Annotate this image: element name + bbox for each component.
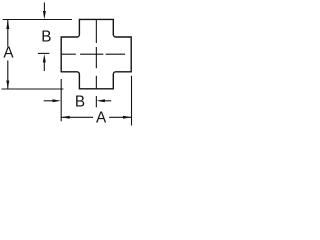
extension line bottom right end cap (x=131.5) [131, 76, 133, 126]
dimension A vertical line [7, 20, 9, 90]
dimension A horizontal line [61, 116, 131, 118]
dimension A vertical arrow up [6, 20, 9, 30]
dimension A vertical arrow down [6, 81, 9, 90]
extension line bottom centerline (x=96.35) [95, 96, 97, 107]
svg-text:B: B [41, 29, 51, 46]
cross fitting outline [61, 19, 131, 88]
dimension B vertical bottom tick [38, 52, 50, 54]
dimension B horizontal right arrow (outside, pointing left) [96, 99, 105, 102]
svg-text:A: A [96, 110, 107, 127]
svg-text:A: A [3, 45, 14, 62]
dimension A horizontal left arrow (pointing left) [61, 116, 69, 119]
svg-text:B: B [75, 94, 85, 111]
dimension B vertical top arrow (outside, pointing down) [43, 3, 45, 12]
dimension B horizontal left arrow (outside, pointing right) [44, 100, 55, 102]
horizontal centerline [61, 53, 125, 55]
extension line top (A/B vertical datum) [3, 19, 72, 21]
dimension B vertical bottom arrow (outside, pointing up) [43, 54, 46, 63]
dimension A horizontal right arrow (pointing right) [123, 116, 132, 119]
extension line bottom left end cap (x=61.2) [60, 79, 62, 121]
extension line bottom left (A vertical datum) [2, 88, 64, 90]
vertical centerline [95, 20, 97, 89]
